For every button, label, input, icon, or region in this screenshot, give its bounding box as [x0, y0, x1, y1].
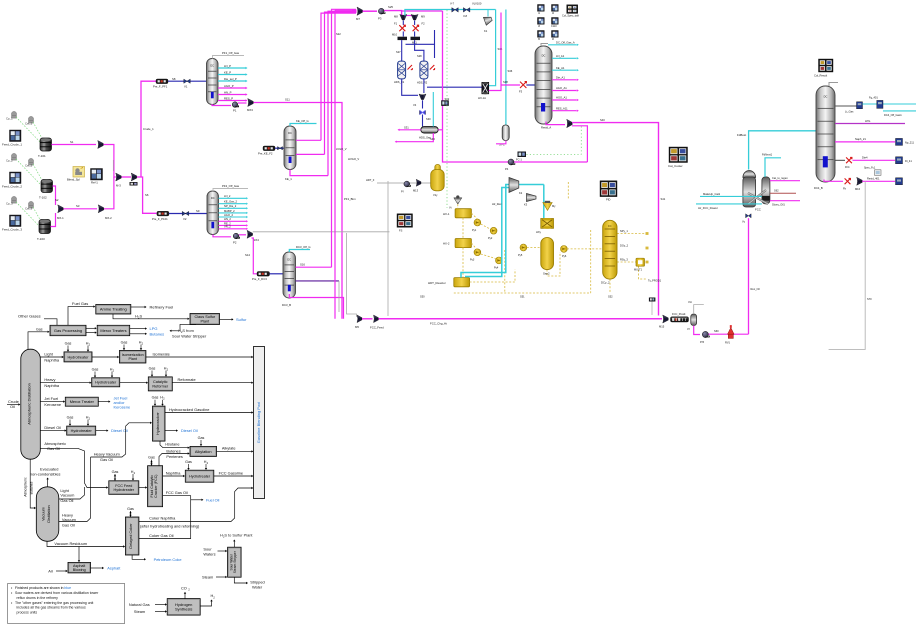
svg-text:Merox Treaters: Merox Treaters	[100, 328, 126, 333]
svg-text:Diesel Oil: Diesel Oil	[181, 428, 198, 433]
svg-text:AGO_P: AGO_P	[224, 84, 234, 88]
svg-text:LPG: LPG	[150, 326, 158, 331]
svg-text:Naphtha: Naphtha	[166, 471, 182, 476]
svg-text:KE_P: KE_P	[224, 70, 231, 74]
mixer	[663, 315, 669, 323]
valve V-2	[182, 211, 189, 215]
stream KE_Gas_2 from PF-2	[219, 203, 247, 205]
wire F-DC to main column	[526, 84, 535, 86]
svg-text:Gas: Gas	[121, 340, 128, 344]
wire to pump P-3	[363, 10, 378, 12]
svg-text:DC: DC	[210, 64, 214, 68]
box Claus Sulfur Plant	[190, 314, 220, 325]
green dotted signal horizontal	[523, 154, 581, 156]
svg-text:Butanes: Butanes	[150, 331, 165, 336]
svg-text:Plant: Plant	[200, 320, 210, 324]
svg-text:HGO_A1: HGO_A1	[556, 96, 567, 100]
ADU to VDU	[30, 459, 35, 508]
svg-text:FdNext1: FdNext1	[762, 153, 773, 157]
yellow dashed wire	[567, 182, 569, 200]
stream KE_A1 from main column	[552, 69, 577, 71]
svg-text:Cracker (FCC): Cracker (FCC)	[154, 475, 158, 498]
wire DC-2 draw to bus x321	[296, 139, 321, 141]
svg-text:Py6: Py6	[562, 255, 567, 258]
svg-text:Steam: Steam	[134, 609, 145, 614]
svg-text:Heavy: Heavy	[44, 377, 55, 382]
stream table icon T3	[10, 215, 22, 227]
right column bottoms	[824, 180, 843, 182]
svg-text:(after hydrotreating and refor: (after hydrotreating and reforming)	[140, 524, 200, 529]
svg-text:P4: P4	[505, 167, 509, 171]
yellow selected icon Blend	[73, 167, 85, 178]
wire F-101 to column PF-1	[168, 80, 207, 82]
wire M12 to valve	[422, 100, 424, 108]
svg-text:Gas: Gas	[92, 367, 99, 371]
relief valve (red)	[728, 325, 735, 338]
svg-text:Vacuum: Vacuum	[42, 507, 46, 521]
svg-text:Air_FCC_blower: Air_FCC_blower	[698, 206, 718, 210]
cyan down to HXy	[543, 185, 545, 219]
green dashed link	[16, 202, 40, 227]
box Hydrotreater 3	[67, 426, 96, 435]
svg-text:Pentenes: Pentenes	[166, 454, 182, 459]
FCC right side streams	[770, 180, 800, 182]
valve V-1	[184, 79, 190, 83]
mixer	[357, 315, 362, 323]
mixer MX2	[131, 173, 137, 181]
svg-text:T-103: T-103	[37, 237, 45, 241]
svg-text:Naphtha: Naphtha	[44, 383, 60, 388]
svg-text:Alkylation: Alkylation	[195, 449, 212, 454]
svg-text:Sour waters are derived from v: Sour waters are derived from various dis…	[15, 591, 99, 595]
stripper vessel ST-1	[502, 125, 509, 141]
svg-text:Steam Stripper: Steam Stripper	[233, 550, 237, 573]
svg-text:Gas: Gas	[185, 460, 192, 464]
stream table icon	[552, 5, 559, 12]
svg-text:FdBust: FdBust	[737, 133, 746, 137]
svg-text:Rec_Oil: Rec_Oil	[751, 287, 761, 291]
vacuum distillation tower	[36, 487, 59, 542]
main column bottoms	[546, 122, 565, 125]
svg-text:Fuel Oil: Fuel Oil	[206, 497, 220, 502]
svg-text:Gas: Gas	[112, 470, 119, 474]
svg-text:P2: P2	[233, 241, 237, 245]
svg-text:VR_2: VR_2	[224, 225, 231, 229]
stream table icon	[538, 18, 545, 25]
svg-text:Cw_2: Cw_2	[25, 164, 33, 168]
amine treating H2S to claus	[113, 314, 189, 319]
main crude column DC-1	[535, 46, 552, 124]
box Alkylation	[190, 446, 217, 456]
stream MABP_2 from PF-2	[219, 212, 247, 214]
wire to red valve 1	[402, 21, 404, 26]
svg-text:DC: DC	[211, 196, 215, 200]
box Hydrotreater 2	[92, 378, 120, 387]
svg-text:Sulfur: Sulfur	[236, 317, 247, 322]
yellow dashed wire	[457, 204, 459, 209]
FS block under MX2	[130, 182, 138, 186]
compressor Ky-2	[527, 194, 537, 202]
wire valve to flash drum	[422, 115, 424, 127]
yellow dashed wire	[590, 230, 592, 293]
vac resid to asphalt blowing	[78, 547, 80, 562]
magenta from HX-A to main column feed	[489, 13, 501, 91]
stream HGO_A1 from main column	[552, 99, 577, 101]
svg-text:Reformate: Reformate	[178, 377, 196, 382]
FCC gas oil and fuel oil	[139, 496, 191, 539]
svg-text:V1: V1	[184, 85, 188, 89]
svg-text:FCC_Feed: FCC_Feed	[370, 326, 384, 330]
svg-text:Gas: Gas	[198, 436, 205, 440]
atmospheric gas oil line	[40, 448, 107, 487]
wire drum2/drum3 to mixer MX0b	[53, 186, 56, 205]
wire main bottom collection line	[379, 318, 663, 320]
svg-text:Pr5: Pr5	[700, 340, 705, 344]
svg-text:Kerosene: Kerosene	[114, 404, 131, 409]
magenta bus riser 4 (down to FCC feed)	[334, 10, 336, 319]
svg-text:K2: K2	[519, 191, 523, 195]
wire header to HDS mixers	[384, 11, 401, 16]
navy drop to reactor 2 side	[434, 30, 436, 58]
svg-text:K3: K3	[524, 203, 528, 207]
svg-text:M9: M9	[421, 15, 425, 19]
fired heater FH-2	[413, 25, 419, 31]
gray recycle line right	[829, 181, 866, 349]
stream table icon	[552, 18, 559, 25]
svg-text:Delayed Coker: Delayed Coker	[129, 523, 133, 549]
yellow column DCy	[603, 220, 617, 279]
asphalt product	[91, 567, 103, 569]
svg-text:KE_1: KE_1	[285, 177, 292, 181]
svg-text:Gas Oil: Gas Oil	[47, 446, 60, 451]
wire FH-2 down	[414, 31, 416, 36]
light vacuum gas oil	[59, 487, 85, 499]
wire drum1 to mixer MX0a	[52, 144, 97, 146]
fired heater bottoms	[845, 178, 851, 184]
svg-text:Fh4: Fh4	[845, 165, 850, 169]
svg-text:S51: S51	[520, 295, 525, 299]
heater E-FCC (comb)	[671, 317, 689, 322]
stream KE_P from PF-1	[218, 74, 246, 76]
svg-text:S25: S25	[388, 5, 393, 9]
svg-text:Vacuum: Vacuum	[60, 493, 74, 498]
svg-text:Lt_Gas: Lt_Gas	[845, 110, 854, 114]
svg-text:DC_Off_Gas_A: DC_Off_Gas_A	[556, 41, 575, 45]
yellow dashed wire	[481, 224, 490, 229]
svg-text:S30: S30	[426, 117, 431, 121]
svg-text:Crude_1: Crude_1	[143, 127, 154, 131]
gas line from ADU top	[28, 332, 49, 349]
svg-text:M16: M16	[855, 187, 861, 191]
butenes pentenes to alkylation	[159, 454, 189, 466]
svg-text:MX3: MX3	[247, 108, 253, 112]
svg-text:V-8: V-8	[463, 14, 468, 18]
svg-text:DC: DC	[608, 224, 612, 228]
svg-text:Jet Fuel: Jet Fuel	[44, 396, 58, 401]
svg-text:FCC Gasoline: FCC Gasoline	[219, 470, 243, 475]
hydrocracker outputs	[165, 412, 252, 414]
svg-text:Cat_to_regen: Cat_to_regen	[772, 176, 788, 180]
yellow product ticks	[646, 232, 649, 235]
valve V-G2	[463, 8, 470, 13]
svg-text:DC: DC	[288, 131, 292, 135]
svg-text:DC4_Off_Gas1: DC4_Off_Gas1	[884, 113, 902, 117]
svg-text:Air: Air	[48, 568, 53, 573]
wire DC-3 bottoms	[289, 294, 343, 319]
svg-text:S2: S2	[55, 198, 59, 202]
heat exchanger HX-A	[482, 82, 489, 94]
svg-text:reflux drums in the refinery: reflux drums in the refinery	[17, 596, 59, 600]
wire F-102 to DC-2	[275, 147, 284, 149]
svg-text:RSy_3: RSy_3	[620, 258, 628, 262]
stream table icon	[538, 31, 545, 38]
svg-text:Py4: Py4	[494, 267, 499, 270]
yellow pumps	[474, 219, 481, 226]
svg-text:Pre_KE_F2: Pre_KE_F2	[258, 152, 273, 156]
svg-text:Fuel Gas: Fuel Gas	[72, 301, 88, 306]
svg-text:Hydrocracker: Hydrocracker	[156, 412, 160, 435]
reactor R-1	[398, 61, 406, 79]
grid icon PID	[600, 181, 617, 197]
svg-text:Pf: Pf	[401, 190, 404, 194]
compressor Ky-1	[509, 178, 519, 193]
magenta riser to FCC	[748, 218, 750, 334]
isomerate to pool	[146, 356, 252, 358]
svg-text:FCC_PreHt: FCC_PreHt	[672, 312, 686, 316]
svg-text:Naph_21: Naph_21	[855, 137, 866, 141]
svg-text:FCC: FCC	[755, 208, 761, 212]
valve V-H2	[420, 111, 426, 115]
valve V-G1	[452, 8, 458, 13]
mixer M12 (down)	[419, 94, 426, 100]
wire MX4 down to F-103	[252, 238, 258, 274]
big icon Col_Spec	[567, 5, 578, 14]
yellow dashed wire	[567, 248, 603, 250]
yellow dashed wire	[547, 252, 560, 276]
heater F-101	[156, 79, 168, 84]
wire MX0c up	[104, 177, 114, 209]
fired heater F-DC	[520, 82, 526, 88]
stream Die_sel_P from PF-1	[218, 80, 246, 82]
svg-text:LN_P: LN_P	[224, 64, 231, 68]
mixer on HDT feed	[416, 179, 421, 186]
svg-text:T-102: T-102	[39, 196, 47, 200]
stream AGO_P from PF-1	[218, 87, 246, 89]
alkylate to pool	[217, 450, 252, 452]
svg-text:NPy_1: NPy_1	[620, 229, 628, 233]
navy piping reactor cluster	[401, 40, 403, 61]
svg-text:M7: M7	[356, 17, 360, 21]
svg-text:Vacuum: Vacuum	[62, 517, 76, 522]
cyan down to HX-A	[488, 10, 495, 86]
pump P-1 on PF-1 bottoms	[212, 104, 231, 106]
svg-text:Diesel Oil: Diesel Oil	[44, 425, 61, 430]
feed drum T-101	[40, 138, 52, 151]
svg-text:HDT_Reactor: HDT_Reactor	[428, 281, 446, 285]
pump	[508, 159, 515, 165]
svg-text:Distillation: Distillation	[47, 505, 51, 522]
svg-text:Gas: Gas	[65, 341, 72, 345]
small icon near bottoms	[875, 170, 882, 176]
svg-text:S60: S60	[714, 329, 719, 333]
mixer bar 1	[398, 37, 408, 40]
svg-text:Vnt: Vnt	[688, 300, 692, 304]
stream LN_A1 from main column	[552, 57, 577, 59]
gray signal to MX1	[112, 160, 114, 171]
svg-text:HX-2: HX-2	[443, 242, 450, 246]
svg-text:Evacuated: Evacuated	[40, 466, 58, 471]
wire drum left product	[399, 129, 421, 131]
svg-text:Ty_PROD1: Ty_PROD1	[648, 279, 662, 283]
valve icon naphtha	[896, 138, 903, 145]
mixer MX1	[116, 173, 122, 181]
heater P-101	[157, 211, 169, 216]
magenta riser x442.5 and run to x587	[443, 11, 588, 162]
FCC crossover standpipes	[748, 190, 768, 204]
svg-text:Gas: Gas	[67, 415, 74, 419]
box Hydrotreater 4	[185, 470, 214, 482]
svg-text:FCC_Chg_Ht: FCC_Chg_Ht	[430, 322, 447, 326]
small vertical vessel V-F	[691, 314, 697, 326]
pump P-2	[233, 233, 239, 239]
notes box	[8, 584, 125, 624]
stream Die_A1 from main column	[552, 79, 577, 81]
svg-text:HVGO_V: HVGO_V	[348, 157, 359, 161]
yellow dashed wire	[470, 270, 515, 283]
svg-text:Cw_1: Cw_1	[25, 122, 33, 126]
yellow funnel mixer	[543, 203, 552, 211]
svg-text:S11: S11	[285, 98, 290, 102]
cyan FCC overhead to main fractionator	[749, 131, 816, 170]
fired heater right column	[846, 157, 852, 163]
light naphtha to hydrotreater	[40, 356, 62, 358]
svg-text:Resid_A: Resid_A	[541, 126, 551, 130]
wire MX5-MX6	[362, 318, 373, 320]
gray signal risers	[338, 281, 340, 312]
svg-text:Py2: Py2	[488, 237, 493, 240]
svg-text:KE_A1: KE_A1	[556, 66, 565, 70]
blend table icon	[91, 169, 103, 181]
purple LPG product	[835, 123, 905, 125]
evacuated non-condensibles	[47, 479, 49, 487]
air to asphalt blowing	[56, 570, 67, 572]
navy valve icon 1	[857, 102, 863, 109]
yellow dashed wire	[471, 213, 477, 219]
green dashed link	[33, 122, 43, 140]
right product column DC-4	[816, 86, 835, 182]
svg-text:S38: S38	[503, 80, 508, 84]
svg-text:V-7: V-7	[450, 2, 455, 6]
svg-text:Die4: Die4	[862, 156, 868, 160]
svg-text:Py3: Py3	[470, 259, 475, 262]
magenta bus riser 1	[321, 13, 356, 140]
svg-text:M-3: M-3	[116, 184, 121, 188]
svg-text:Coker Gas Oil: Coker Gas Oil	[149, 533, 174, 538]
wire P-101 to column PF-2	[169, 213, 207, 215]
stream AGO_A1 from main column	[552, 90, 577, 92]
overhead elbow	[541, 44, 548, 47]
chimney elbow	[829, 83, 838, 87]
svg-text:non-condensibles: non-condensibles	[30, 472, 61, 477]
heater F-102	[263, 146, 275, 151]
svg-text:CO: CO	[181, 586, 187, 591]
yellow exchanger HX-2	[455, 239, 471, 248]
svg-text:Amine Treating: Amine Treating	[100, 307, 127, 312]
svg-text:Atmospheric: Atmospheric	[44, 441, 66, 446]
amine treating to refinery fuel	[131, 306, 145, 308]
svg-text:Steam: Steam	[202, 574, 213, 579]
svg-text:Py5: Py5	[518, 254, 523, 257]
svg-text:FS: FS	[399, 229, 403, 233]
svg-text:Cp_1: Cp_1	[6, 117, 13, 121]
cyan air feed	[696, 203, 762, 205]
svg-text:Slurry_Oil1: Slurry_Oil1	[772, 203, 785, 207]
svg-text:Cw_3: Cw_3	[25, 207, 33, 211]
yellow dashed wire	[609, 279, 611, 293]
svg-text:S33: S33	[430, 137, 435, 141]
heater F-103	[257, 272, 270, 277]
svg-text:DC: DC	[542, 54, 546, 58]
svg-text:MX4: MX4	[253, 238, 259, 242]
cyan MakeUp_Cat feed	[700, 195, 762, 197]
FCC gas arrows up	[151, 461, 153, 466]
svg-text:LVGO_V: LVGO_V	[336, 147, 347, 151]
svg-text:RV1: RV1	[725, 341, 731, 345]
green dashed link	[16, 159, 40, 184]
wire split to mixer 2	[402, 15, 415, 17]
magenta diesel product	[853, 159, 896, 161]
stream table icon	[552, 31, 559, 38]
magenta bus riser 5	[332, 9, 357, 267]
svg-text:Ref-1: Ref-1	[91, 181, 98, 185]
stream AGO_2 from PF-2	[219, 216, 247, 218]
mixer MX6	[374, 315, 379, 323]
svg-text:Kerosene: Kerosene	[44, 402, 61, 407]
svg-text:Resid_401: Resid_401	[867, 176, 880, 180]
yellow separator Sep2	[541, 238, 554, 270]
column PF-1 (preflash 1)	[207, 59, 219, 105]
svg-text:Blend_Spl: Blend_Spl	[67, 178, 80, 182]
mixer HDS-M1 (down)	[400, 14, 407, 20]
svg-text:Merox Treater: Merox Treater	[70, 399, 95, 404]
column PF-2 (preflash 2)	[207, 191, 219, 235]
svg-text:Butanes: Butanes	[29, 481, 33, 494]
wire PF-1 bottoms to bus	[254, 103, 343, 319]
svg-text:Heavy Vacuum: Heavy Vacuum	[94, 452, 120, 457]
svg-text:Butenes: Butenes	[166, 449, 180, 454]
wire DC-2 overhead cyan	[290, 124, 317, 127]
svg-text:Sour Water Stripper: Sour Water Stripper	[172, 334, 207, 339]
yellow exchanger with X	[541, 218, 554, 229]
magenta naphtha product	[835, 141, 895, 143]
mixer bar 2	[411, 37, 421, 40]
svg-text:VLV100: VLV100	[472, 2, 482, 6]
stream HN_2 from PF-2	[219, 220, 247, 222]
stream RES_P from PF-1	[218, 100, 246, 102]
svg-text:Cat_Cooler: Cat_Cooler	[668, 164, 683, 168]
flash drum D-1	[421, 127, 438, 133]
wire DC-2 draw to bus x325	[296, 153, 325, 155]
svg-text:Col_Spec_tabl: Col_Spec_tabl	[562, 14, 579, 18]
svg-text:V1y: V1y	[433, 193, 438, 197]
cyan recycle in HDT	[465, 188, 509, 277]
cyan product 2 to edge	[883, 110, 916, 112]
svg-text:S8: S8	[172, 77, 176, 81]
svg-text:Asphalt: Asphalt	[107, 565, 121, 570]
svg-text:MX-2: MX-2	[105, 216, 112, 220]
svg-text:P1: P1	[233, 109, 237, 113]
svg-text:i-Butane: i-Butane	[165, 441, 180, 446]
